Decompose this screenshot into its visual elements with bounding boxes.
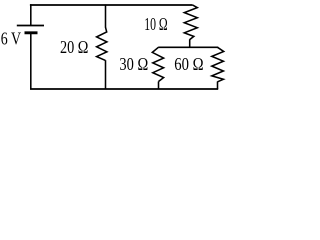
- label 20 ohm: [60, 37, 88, 57]
- resistor 20 ohm: [97, 27, 107, 60]
- wire top: [30, 4, 192, 6]
- wire 60 ohm bottom lead: [217, 82, 219, 90]
- svg-text:10 Ω: 10 Ω: [144, 14, 168, 34]
- label 30 ohm: [119, 54, 148, 74]
- label 6 V: [1, 28, 21, 48]
- wire 20 ohm top lead: [105, 4, 107, 27]
- svg-text:60 Ω: 60 Ω: [174, 54, 203, 74]
- battery B1 6 V positive plate: [17, 25, 44, 27]
- battery B1 6 V negative plate: [25, 31, 38, 34]
- wire left lower: [30, 34, 32, 90]
- wire 30 ohm bottom lead: [158, 82, 160, 90]
- wire left upper: [30, 4, 32, 26]
- label 60 ohm: [174, 54, 203, 74]
- wire 20 ohm bottom lead: [105, 60, 107, 89]
- resistor 30 ohm: [152, 47, 163, 81]
- svg-text:20 Ω: 20 Ω: [60, 37, 88, 57]
- svg-text:30 Ω: 30 Ω: [119, 54, 148, 74]
- svg-text:6 V: 6 V: [1, 28, 21, 48]
- wire bottom: [30, 88, 218, 90]
- label 10 ohm: [144, 14, 168, 34]
- resistor 60 ohm: [212, 47, 224, 82]
- resistor 10 ohm: [184, 5, 197, 40]
- wire middle node: [158, 46, 218, 48]
- wire 10 ohm bottom lead: [189, 39, 191, 47]
